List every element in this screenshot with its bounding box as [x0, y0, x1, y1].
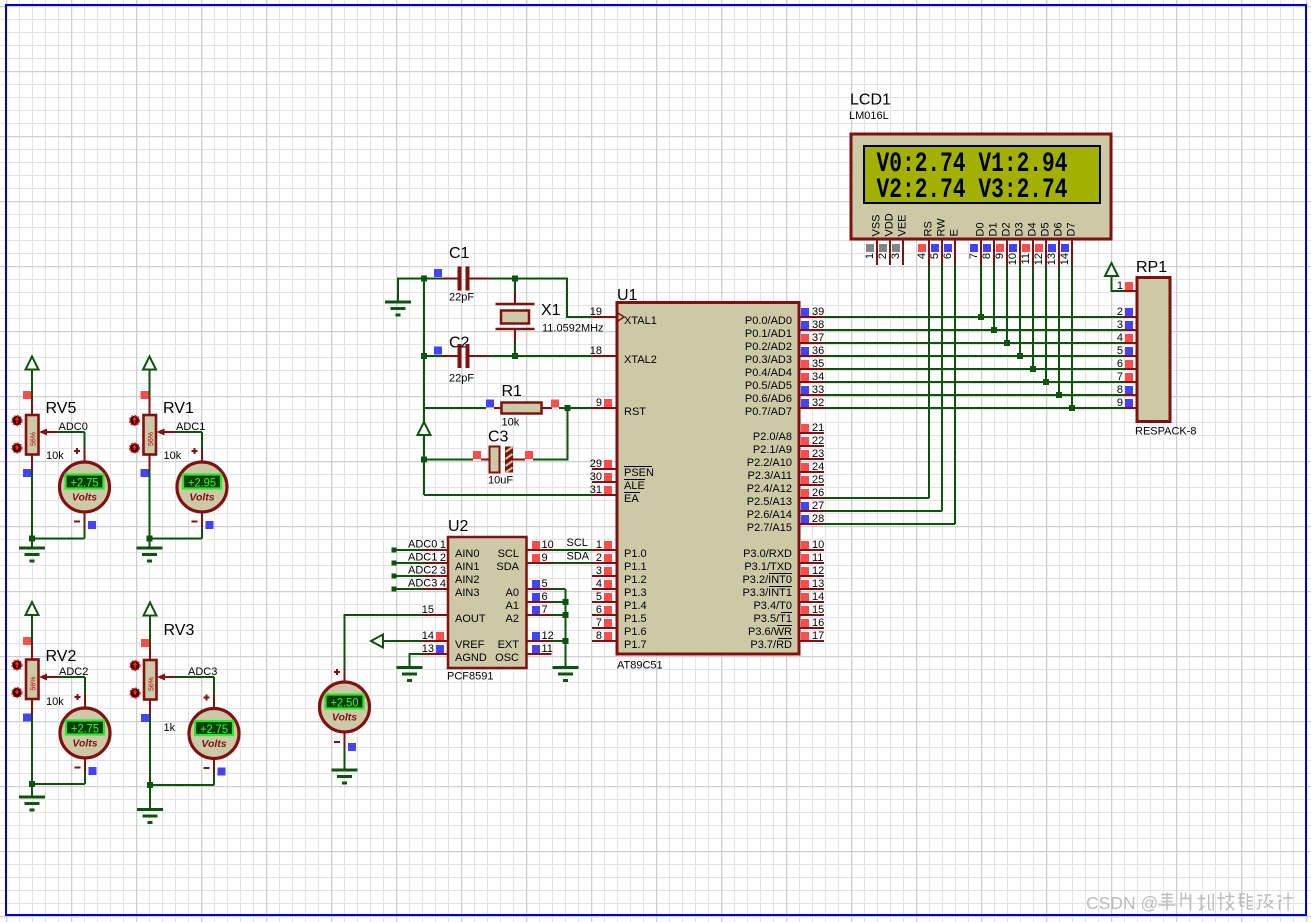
wiper arrow RV3: [157, 674, 176, 681]
svg-text:6: 6: [596, 604, 602, 616]
svg-text:4: 4: [1117, 332, 1123, 344]
svg-text:2: 2: [596, 552, 602, 564]
svg-text:23: 23: [812, 448, 824, 460]
svg-text:U1: U1: [617, 287, 638, 304]
svg-text:XTAL2: XTAL2: [624, 354, 657, 366]
wire P0.0 to RP1 pin 2: [824, 316, 1124, 318]
wire RV3 bottom to ground junction: [149, 715, 151, 785]
U1 pin 1 P1.0: [592, 539, 647, 560]
junction trunk at C2: [421, 353, 427, 359]
net label SDA: [567, 551, 590, 563]
state square voltmeter RV3: [218, 768, 226, 776]
wiper arrow RV1: [157, 429, 176, 436]
U1 pin 11 P3.1/TXD: [744, 552, 824, 573]
svg-text:P3.5/T1: P3.5/T1: [753, 613, 792, 625]
svg-text:6: 6: [542, 591, 548, 603]
U1 pin 36 P0.3/AD3: [745, 345, 824, 366]
svg-text:C1: C1: [449, 245, 470, 262]
wire LCD D0 column: [980, 265, 982, 317]
U1 pin 21 P2.0/A8: [753, 422, 824, 443]
junction EXT: [563, 638, 569, 644]
power arrow on trunk: [418, 422, 431, 435]
U1 pin 13 P3.3/INT1: [742, 578, 824, 599]
crystal X1: [496, 279, 535, 357]
voltmeter AOUT: [320, 682, 370, 732]
state square voltmeter RV1: [206, 521, 214, 529]
U1 pin 24 P2.3/A11: [748, 461, 825, 482]
svg-text:P1.1: P1.1: [624, 561, 647, 573]
wire RV1 wiper to voltmeter: [176, 432, 203, 448]
junction D7: [1069, 405, 1075, 411]
U2 pin 11 OSC: [495, 643, 553, 664]
wire trunk to C1: [424, 278, 443, 280]
svg-text:8: 8: [981, 253, 993, 259]
svg-text:V2:2.74 V3:2.74: V2:2.74 V3:2.74: [877, 175, 1068, 206]
wire LCD E column: [954, 265, 956, 524]
svg-text:7: 7: [1117, 371, 1123, 383]
svg-text:P2.6/A14: P2.6/A14: [747, 509, 792, 521]
svg-text:P2.1/A9: P2.1/A9: [753, 444, 792, 456]
net label SCL: [567, 537, 588, 549]
svg-text:56%: 56%: [149, 677, 156, 691]
LCD pin 11 D4: [1020, 222, 1039, 265]
svg-text:4: 4: [596, 578, 602, 590]
svg-text:P1.3: P1.3: [624, 587, 647, 599]
svg-text:PSEN: PSEN: [624, 467, 654, 479]
svg-text:2: 2: [1117, 306, 1123, 318]
svg-text:27: 27: [812, 500, 824, 512]
label C3: [488, 429, 509, 446]
U1 pin 39 P0.0/AD0: [745, 306, 824, 327]
wire SDA U2 to U1: [552, 562, 593, 564]
svg-text:Volts: Volts: [201, 738, 226, 750]
svg-text:AOUT: AOUT: [455, 613, 486, 625]
svg-text:Volts: Volts: [72, 492, 97, 504]
wire LCD D3 column: [1019, 265, 1021, 356]
state square voltmeter RV5: [88, 521, 96, 529]
label C2: [449, 335, 470, 352]
svg-text:SDA: SDA: [496, 561, 519, 573]
junction D1: [991, 327, 997, 333]
net label ADC2: [59, 666, 88, 678]
svg-text:11: 11: [812, 552, 823, 564]
wire ADC3 to AIN3: [392, 587, 424, 592]
voltmeter RV1: [177, 462, 227, 512]
svg-text:P2.5/A13: P2.5/A13: [747, 496, 792, 508]
pin stub voltmeter RV1 -: [201, 512, 203, 527]
wiper arrow RV5: [39, 429, 58, 436]
LCD pin 4 RS: [916, 221, 935, 265]
wire node to XTAL1: [515, 279, 592, 318]
svg-text:+2.50: +2.50: [331, 696, 359, 710]
LCD pin 9 D2: [994, 222, 1013, 265]
junction D4: [1030, 366, 1036, 372]
wire LCD RW column: [941, 265, 943, 511]
wire ADC1 to AIN1: [392, 561, 424, 566]
wire VREF arrow: [383, 640, 423, 642]
U1 pin 34 P0.5/AD5: [745, 371, 824, 392]
pin stub voltmeter AOUT +: [344, 668, 346, 682]
svg-text:D2: D2: [1001, 222, 1013, 236]
label C3 value 10uF: [488, 475, 513, 487]
svg-text:56%: 56%: [148, 432, 155, 446]
U1 pin 19 XTAL1: [590, 306, 657, 327]
U2 pin 7 A2: [506, 604, 552, 625]
wire P0.5 to RP1 pin 7: [824, 381, 1124, 383]
U2 pin 14 VREF: [422, 630, 485, 651]
state square C2: [434, 347, 442, 355]
svg-text:10k: 10k: [46, 696, 64, 708]
svg-text:1: 1: [864, 253, 876, 259]
state square RV2 top: [23, 637, 31, 645]
power +V arrow RV2: [26, 602, 39, 615]
RP1 pin 6: [1117, 358, 1137, 370]
voltmeter RV2: [60, 708, 110, 758]
svg-text:14: 14: [1059, 253, 1071, 265]
svg-text:P3.3/INT1: P3.3/INT1: [742, 587, 792, 599]
junction RV5: [29, 536, 35, 542]
wire C2 to crystal node: [490, 355, 515, 357]
state square C1: [434, 269, 442, 277]
wire RV1 junction to ground: [149, 539, 151, 549]
svg-text:15: 15: [812, 604, 824, 616]
pin stub RV2 pin1: [31, 643, 33, 660]
svg-text:8: 8: [1117, 384, 1123, 396]
U1 pin 37 P0.2/AD2: [745, 332, 824, 353]
capacitor C2: [443, 344, 490, 368]
label - RV2: [75, 767, 81, 769]
svg-text:VEE: VEE: [897, 214, 909, 236]
state square RV3 bottom: [141, 714, 149, 722]
svg-text:X1: X1: [541, 302, 561, 319]
state square RV5 bottom: [23, 469, 31, 477]
svg-text:13: 13: [812, 578, 824, 590]
wire trunk to EA: [424, 494, 592, 496]
pin stub RV3 pin1: [149, 645, 151, 660]
U1 pin 27 P2.6/A14: [747, 500, 825, 521]
U2 pin 12 EXT: [498, 630, 554, 651]
power arrow VREF: [371, 635, 383, 648]
svg-text:36: 36: [812, 345, 824, 357]
voltmeter RV5: [60, 462, 110, 512]
label U2 value PCF8591: [447, 671, 493, 683]
svg-text:P3.7/RD: P3.7/RD: [750, 639, 792, 651]
wire RV5 junction to ground: [31, 539, 33, 549]
wire AOUT meter to ground: [344, 747, 346, 770]
svg-text:P2.0/A8: P2.0/A8: [753, 431, 792, 443]
svg-text:18: 18: [590, 345, 602, 357]
label RV3: [164, 622, 195, 639]
wire trunk to C3: [424, 459, 473, 461]
state square R1 right: [551, 400, 559, 408]
svg-text:AIN1: AIN1: [455, 561, 479, 573]
LCD pin 14 D7: [1059, 222, 1078, 265]
power +V arrow RV5: [26, 357, 39, 370]
wire trunk to C2: [424, 355, 443, 357]
wire A0/A1/A2/EXT trunk to ground: [552, 589, 566, 668]
svg-text:1: 1: [1117, 280, 1123, 292]
svg-text:EA: EA: [624, 493, 639, 505]
label RV1 value 10k: [164, 450, 182, 462]
svg-text:P2.4/A12: P2.4/A12: [747, 483, 792, 495]
wire C3 right: [533, 459, 568, 461]
svg-text:P3.6/WR: P3.6/WR: [748, 626, 792, 638]
wire LCD D6 column: [1058, 265, 1060, 395]
U2 pin 3 AIN2: [423, 565, 479, 586]
LCD pin 13 D6: [1046, 222, 1065, 265]
pin stub voltmeter RV3 +: [213, 695, 215, 709]
svg-text:4: 4: [916, 253, 928, 259]
svg-text:CSDN @: CSDN @: [1086, 893, 1158, 913]
ground A0-EXT: [553, 668, 579, 681]
U1 pin 8 P1.7: [592, 630, 647, 651]
power arrow RP1: [1105, 263, 1118, 276]
svg-text:P0.1/AD1: P0.1/AD1: [745, 328, 792, 340]
svg-text:P3.2/INT0: P3.2/INT0: [742, 574, 792, 586]
svg-text:A0: A0: [506, 587, 519, 599]
svg-text:3: 3: [1117, 319, 1123, 331]
svg-text:P2.3/A11: P2.3/A11: [748, 470, 792, 482]
U1 pin 12 P3.2/INT0: [742, 565, 824, 586]
svg-text:LCD1: LCD1: [850, 92, 891, 109]
U1 pin 35 P0.4/AD4: [745, 358, 824, 379]
label C1: [449, 245, 470, 262]
ground AGND: [397, 668, 423, 681]
wire LCD D5 column: [1045, 265, 1047, 382]
wire P0.2 to RP1 pin 4: [824, 342, 1124, 344]
svg-text:+2.95: +2.95: [188, 476, 216, 490]
ground RV1: [137, 548, 163, 561]
U1 pin 23 P2.2/A10: [747, 448, 825, 469]
svg-text:1: 1: [440, 539, 446, 551]
U1 pin 14 P3.4/T0: [753, 591, 824, 612]
U1 pin 33 P0.6/AD6: [745, 384, 824, 405]
svg-text:19: 19: [590, 306, 602, 318]
svg-text:RW: RW: [936, 218, 948, 237]
svg-text:P3.4/T0: P3.4/T0: [753, 600, 792, 612]
svg-text:P0.5/AD5: P0.5/AD5: [745, 380, 792, 392]
lcd LCD1 screen: [864, 146, 1100, 206]
LCD pin 7 D0: [968, 222, 987, 265]
svg-text:RV2: RV2: [46, 648, 77, 665]
wire P0.4 to RP1 pin 6: [824, 368, 1124, 370]
label RV1: [163, 400, 194, 417]
junction A2: [563, 612, 569, 618]
svg-text:P1.4: P1.4: [624, 600, 647, 612]
state square C3 right: [525, 451, 533, 459]
LCD pin 6 E: [942, 229, 961, 265]
junction RV1: [147, 536, 153, 542]
pin stub RV2 bottom: [31, 699, 33, 715]
U2 pin 9 SDA: [496, 552, 551, 573]
U2 pin 13 AGND: [422, 643, 487, 664]
svg-text:10k: 10k: [46, 450, 64, 462]
label + RV3: [204, 695, 210, 701]
wire RV5 wiper to voltmeter: [58, 432, 85, 448]
U1 pin 22 P2.1/A9: [753, 435, 824, 456]
junction C2/X1: [512, 353, 518, 359]
svg-text:P2.7/A15: P2.7/A15: [747, 522, 792, 534]
svg-text:P0.2/AD2: P0.2/AD2: [745, 341, 792, 353]
svg-text:7: 7: [596, 617, 602, 629]
svg-text:10: 10: [542, 539, 554, 551]
svg-text:P3.1/TXD: P3.1/TXD: [744, 561, 792, 573]
wire P2 pin row 498 to LCD column: [824, 497, 929, 499]
RP1 pin 4: [1117, 332, 1137, 344]
pin stub voltmeter RV2 -: [84, 758, 86, 773]
wire P2 pin row 524 to LCD column: [824, 523, 955, 525]
svg-text:12: 12: [812, 565, 824, 577]
svg-text:56%: 56%: [31, 432, 38, 446]
potentiometer RV3: [130, 660, 156, 700]
wire voltmeter RV5 - to junction: [32, 527, 85, 539]
svg-text:ALE: ALE: [624, 480, 645, 492]
svg-text:5: 5: [596, 591, 602, 603]
wire RV3 junction to ground: [149, 785, 151, 810]
wire AOUT to voltmeter: [345, 615, 424, 668]
junction A1: [563, 599, 569, 605]
voltmeter RV3: [189, 709, 239, 759]
svg-text:ADC3: ADC3: [408, 578, 437, 590]
wire voltmeter RV1 - to junction: [150, 527, 203, 539]
svg-text:10: 10: [812, 539, 824, 551]
RP1 pin 8: [1117, 384, 1137, 396]
potentiometer RV2: [12, 660, 38, 700]
net label ADC0: [408, 539, 437, 551]
svg-text:24: 24: [812, 461, 824, 473]
potentiometer RV1: [130, 415, 156, 455]
LCD pin 12 D5: [1033, 222, 1052, 265]
svg-text:P0.4/AD4: P0.4/AD4: [745, 367, 792, 379]
U2 pin 15 AOUT: [422, 604, 486, 625]
label R1 value 10k: [502, 417, 520, 429]
svg-text:1: 1: [596, 539, 602, 551]
svg-text:P0.0/AD0: P0.0/AD0: [745, 315, 792, 327]
junction trunk at C3: [421, 457, 427, 463]
pin stub voltmeter RV5 +: [84, 448, 86, 462]
svg-text:13: 13: [1046, 253, 1058, 265]
svg-text:D7: D7: [1066, 222, 1078, 236]
svg-text:C3: C3: [488, 429, 509, 446]
svg-text:9: 9: [542, 552, 548, 564]
svg-text:11.0592MHz: 11.0592MHz: [542, 323, 604, 335]
adc U2 body: [448, 537, 527, 668]
pin stub voltmeter RV5 -: [84, 512, 86, 527]
U2 pin 10 SCL: [498, 539, 554, 560]
wire SCL U2 to U1: [552, 549, 593, 551]
svg-text:ADC0: ADC0: [408, 539, 437, 551]
svg-text:7: 7: [542, 604, 548, 616]
svg-text:1k: 1k: [164, 722, 176, 734]
svg-text:22pF: 22pF: [449, 292, 474, 304]
wire RV1 bottom to ground junction: [149, 470, 151, 539]
junction D6: [1056, 392, 1062, 398]
svg-text:RS: RS: [923, 221, 935, 236]
svg-text:P2.2/A10: P2.2/A10: [747, 457, 792, 469]
wire C1 row to ground branch: [398, 279, 424, 303]
wire C1 to crystal node: [490, 278, 515, 280]
U2 pin 1 AIN0: [423, 539, 479, 560]
wire trunk to R1: [424, 407, 486, 409]
svg-text:30: 30: [590, 471, 602, 483]
svg-text:EXT: EXT: [498, 639, 520, 651]
wire P2 pin row 511 to LCD column: [824, 510, 942, 512]
state square R1 left: [486, 400, 494, 408]
label RV2: [46, 648, 77, 665]
svg-text:10k: 10k: [164, 450, 182, 462]
respack RP1 body: [1137, 278, 1170, 422]
U1 pin 29 PSEN: [590, 458, 654, 479]
svg-text:34: 34: [812, 371, 824, 383]
label LCD1 value LM016L: [849, 110, 889, 122]
wire RV1 top: [149, 370, 151, 398]
svg-text:+2.75: +2.75: [71, 476, 99, 490]
label C2 value 22pF: [449, 373, 474, 385]
U1 pin 28 P2.7/A15: [747, 513, 825, 534]
RP1 pin 9: [1117, 397, 1137, 409]
label C1 value 22pF: [449, 292, 474, 304]
svg-text:2: 2: [877, 253, 889, 259]
svg-text:SCL: SCL: [498, 548, 519, 560]
wire RV3 top: [149, 616, 151, 646]
U1 pin 4 P1.3: [592, 578, 647, 599]
svg-text:RST: RST: [624, 406, 646, 418]
svg-text:21: 21: [812, 422, 824, 434]
svg-text:8: 8: [596, 630, 602, 642]
svg-text:D3: D3: [1014, 222, 1026, 236]
svg-text:PCF8591: PCF8591: [447, 671, 493, 683]
U2 pin 6 A1: [506, 591, 552, 612]
svg-text:P1.6: P1.6: [624, 626, 647, 638]
state square RV3 top: [141, 639, 149, 647]
wire node to XTAL2: [515, 355, 592, 357]
svg-text:5: 5: [542, 578, 548, 590]
mcu U1 body: [617, 303, 799, 655]
label - RV5: [74, 521, 80, 523]
svg-text:P1.5: P1.5: [624, 613, 647, 625]
svg-text:9: 9: [596, 397, 602, 409]
junction RV3: [147, 782, 153, 788]
wire P0.6 to RP1 pin 8: [824, 394, 1124, 396]
svg-text:E: E: [949, 229, 961, 236]
RP1 pin 1: [1117, 280, 1137, 292]
wire LCD D4 column: [1032, 265, 1034, 369]
U1 pin 25 P2.4/A12: [747, 474, 825, 495]
junction R1/C3: [565, 405, 571, 411]
svg-text:P1.2: P1.2: [624, 574, 647, 586]
svg-text:10k: 10k: [502, 417, 520, 429]
power +V arrow RV1: [143, 357, 156, 370]
svg-text:P3.0/RXD: P3.0/RXD: [743, 548, 792, 560]
svg-text:Volts: Volts: [332, 712, 357, 724]
watermark CSDN: [1086, 893, 1293, 913]
LCD pin 1 VSS: [864, 214, 883, 265]
pin stub voltmeter AOUT -: [344, 732, 346, 747]
svg-text:P0.3/AD3: P0.3/AD3: [745, 354, 792, 366]
label U1: [617, 287, 638, 304]
svg-text:LM016L: LM016L: [849, 110, 889, 122]
wire LCD D7 column: [1071, 265, 1073, 408]
svg-text:RP1: RP1: [1136, 259, 1167, 276]
wire RV2 bottom to ground junction: [31, 715, 33, 785]
pin stub RV5 bottom: [31, 455, 33, 471]
svg-text:P1.7: P1.7: [624, 639, 647, 651]
svg-text:ADC2: ADC2: [408, 565, 437, 577]
svg-text:38: 38: [812, 319, 824, 331]
svg-text:A2: A2: [506, 613, 519, 625]
potentiometer RV5: [12, 415, 38, 455]
label + AOUT meter: [334, 669, 340, 675]
